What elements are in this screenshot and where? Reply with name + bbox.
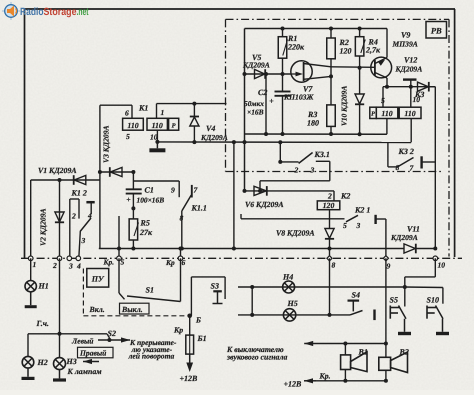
svg-text:3: 3 [81, 236, 86, 245]
svg-text:5: 5 [343, 221, 347, 230]
svg-text:Б: Б [195, 316, 201, 325]
svg-text:180: 180 [307, 119, 319, 128]
svg-text:К2: К2 [340, 192, 350, 201]
svg-text:5: 5 [381, 96, 385, 105]
svg-text:Правый: Правый [79, 349, 106, 358]
svg-text:Кр: Кр [173, 325, 183, 334]
svg-text:110: 110 [152, 121, 163, 130]
svg-text:В2: В2 [399, 348, 409, 357]
svg-text:5: 5 [126, 132, 130, 141]
svg-text:+12В: +12В [180, 374, 199, 383]
svg-text:К1 2: К1 2 [71, 189, 87, 198]
svg-text:Кр.: Кр. [319, 371, 331, 380]
svg-text:V6 КД209А: V6 КД209А [245, 200, 284, 209]
svg-text:S5: S5 [390, 296, 398, 305]
svg-text:100×16В: 100×16В [137, 196, 165, 205]
svg-text:120: 120 [340, 47, 352, 56]
svg-text:5: 5 [121, 258, 125, 267]
svg-text:КД209А: КД209А [395, 65, 423, 74]
svg-text:Кр: Кр [165, 258, 175, 267]
svg-text:V4: V4 [206, 124, 215, 133]
svg-text:8: 8 [332, 261, 336, 270]
svg-text:S1: S1 [146, 286, 154, 295]
svg-text:.net: .net [77, 6, 89, 18]
svg-text:Р: Р [371, 111, 375, 118]
svg-text:3: 3 [356, 221, 361, 230]
svg-text:ПУ: ПУ [91, 274, 105, 283]
svg-text:Н3: Н3 [66, 357, 77, 366]
svg-text:К1: К1 [138, 104, 148, 113]
svg-text:110: 110 [381, 109, 392, 118]
svg-text:Выкл.: Выкл. [121, 305, 143, 314]
svg-text:V1 КД209А: V1 КД209А [38, 166, 77, 175]
svg-text:КД209А: КД209А [242, 61, 270, 70]
svg-text:Г.ч.: Г.ч. [36, 319, 49, 328]
svg-text:В1: В1 [358, 348, 368, 357]
svg-text:Radio: Radio [20, 6, 44, 18]
svg-text:С1: С1 [145, 186, 154, 195]
svg-text:КП103Ж: КП103Ж [283, 93, 314, 102]
svg-text:лей поворота: лей поворота [128, 352, 175, 361]
svg-text:10: 10 [438, 261, 446, 270]
svg-text:S10: S10 [427, 296, 439, 305]
svg-text:4: 4 [87, 211, 92, 220]
svg-text:Н1: Н1 [38, 282, 49, 291]
svg-text:Н5: Н5 [287, 299, 298, 308]
svg-text:1: 1 [161, 108, 165, 117]
svg-text:Storage: Storage [44, 6, 77, 18]
svg-text:110: 110 [127, 121, 138, 130]
svg-text:V3 КД209А: V3 КД209А [102, 125, 111, 163]
svg-text:Вкл.: Вкл. [89, 305, 105, 314]
svg-text:КД209А: КД209А [390, 233, 418, 242]
svg-text:К3: К3 [414, 90, 424, 99]
svg-text:6: 6 [125, 109, 129, 118]
svg-text:S4: S4 [352, 290, 360, 299]
svg-text:8: 8 [396, 163, 400, 172]
svg-text:+: + [269, 97, 274, 106]
svg-text:110: 110 [404, 109, 415, 118]
svg-text:S3: S3 [211, 281, 219, 290]
svg-text:3: 3 [310, 165, 315, 174]
svg-text:V10 КД209А: V10 КД209А [340, 86, 349, 126]
svg-text:звукового сигнала: звукового сигнала [226, 353, 287, 362]
svg-text:3: 3 [68, 261, 73, 270]
svg-text:МП39А: МП39А [392, 40, 418, 49]
svg-text:120: 120 [323, 201, 335, 210]
svg-text:РВ: РВ [431, 26, 442, 36]
svg-text:220к: 220к [287, 43, 305, 52]
svg-text:Н2: Н2 [37, 358, 48, 367]
svg-text:V12: V12 [404, 56, 417, 65]
svg-text:V8 КД209А: V8 КД209А [276, 229, 315, 238]
svg-text:4: 4 [76, 261, 81, 270]
svg-text:+: + [126, 195, 130, 204]
svg-text:Н4: Н4 [282, 273, 293, 282]
svg-text:S2: S2 [108, 329, 116, 338]
svg-text:R5: R5 [140, 219, 150, 228]
svg-text:К2 1: К2 1 [354, 206, 370, 215]
svg-text:9: 9 [171, 186, 175, 195]
svg-text:×16В: ×16В [247, 108, 264, 117]
svg-text:К1.1: К1.1 [191, 204, 207, 213]
svg-text:2: 2 [294, 165, 299, 174]
svg-text:V9: V9 [401, 31, 410, 40]
svg-text:2: 2 [327, 192, 332, 201]
svg-text:6: 6 [182, 258, 186, 267]
svg-text:Кр.: Кр. [103, 258, 115, 267]
svg-text:Б1: Б1 [197, 334, 207, 343]
svg-text:9: 9 [387, 262, 391, 271]
svg-text:V2 КД209А: V2 КД209А [39, 208, 48, 246]
svg-text:К3.1: К3.1 [314, 150, 330, 159]
svg-text:К3 2: К3 2 [398, 147, 414, 156]
svg-text:2,7к: 2,7к [365, 46, 381, 55]
svg-text:К лампам: К лампам [67, 367, 103, 376]
svg-text:+12В: +12В [284, 380, 303, 389]
svg-text:27к: 27к [139, 228, 153, 237]
svg-text:Левый: Левый [71, 337, 93, 346]
svg-text:1: 1 [33, 260, 37, 269]
svg-text:2: 2 [71, 212, 76, 221]
svg-text:2: 2 [52, 261, 57, 270]
svg-text:8: 8 [180, 214, 184, 223]
svg-text:КД209А: КД209А [200, 133, 228, 142]
svg-text:Р: Р [172, 122, 176, 129]
